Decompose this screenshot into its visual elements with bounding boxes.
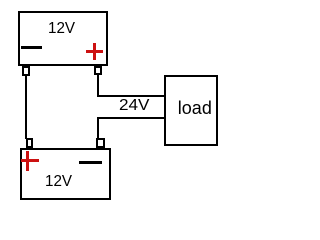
load U1 box (164, 75, 218, 146)
battery B1 (top 12V battery) body (18, 11, 108, 66)
battery B1 negative terminal marker (21, 46, 42, 49)
battery B1 positive terminal marker (86, 43, 103, 60)
battery B2 positive terminal tab (26, 138, 33, 148)
battery B2 negative terminal tab (96, 138, 105, 149)
net label 24V (119, 98, 149, 114)
battery B2 negative terminal marker (79, 161, 102, 164)
wire from B1 positive tab down to the 24V top rail (97, 75, 99, 97)
battery B2 value label 12V (45, 174, 72, 190)
wire: bottom rail from load to B2 negative branch (97, 117, 165, 119)
battery B2 positive terminal marker (21, 151, 39, 171)
battery B1 positive terminal tab (94, 66, 102, 75)
battery B2 (bottom 12V battery) body (20, 148, 111, 200)
battery B1 negative terminal tab (22, 66, 30, 76)
wire: top 24V rail from B1 positive to load (97, 95, 165, 97)
load U1 label (178, 99, 212, 117)
battery B1 value label 12V (48, 21, 75, 37)
wire from B1 negative tab down to B2 positive tab (25, 76, 27, 139)
wire from bottom rail down to B2 negative tab (97, 117, 99, 138)
